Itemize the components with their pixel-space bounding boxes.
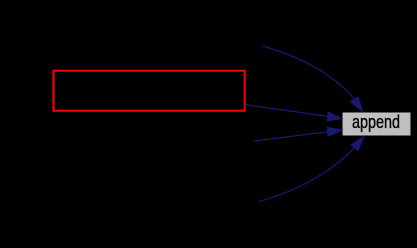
edge 2: red node to append	[246, 105, 342, 121]
edge 1: top caller to append	[263, 46, 363, 112]
node append (grey)	[342, 112, 411, 136]
edge 3: third caller to append	[254, 127, 342, 141]
edge 4: bottom caller to append	[259, 137, 364, 202]
node caller (red, truncated)	[54, 71, 245, 111]
svg-text:append: append	[352, 112, 400, 132]
